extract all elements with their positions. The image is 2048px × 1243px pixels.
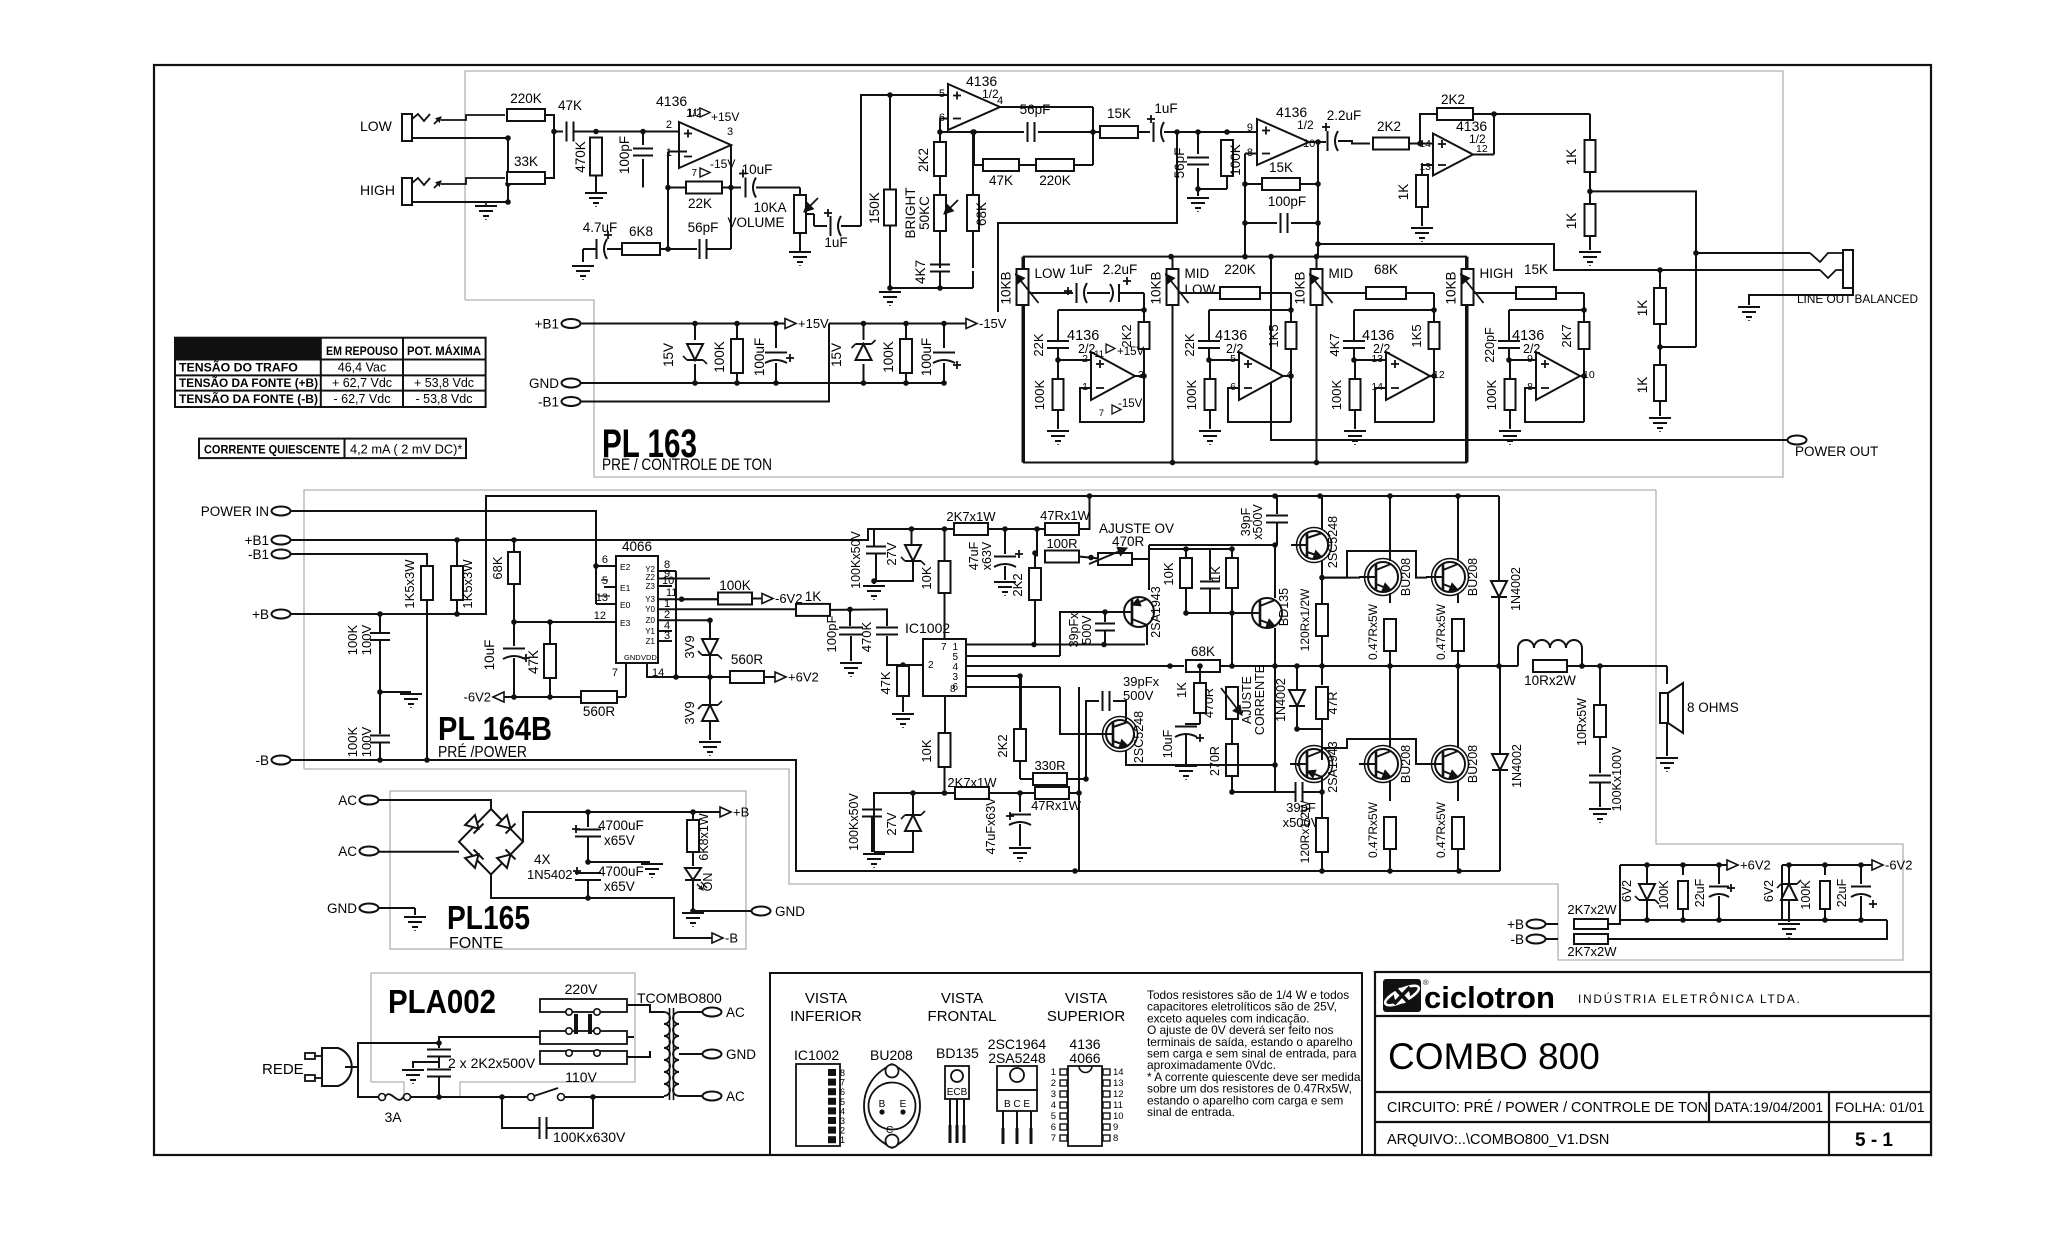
svg-text:6K8x1W: 6K8x1W	[697, 813, 711, 860]
capacitor 22uF pos	[1718, 865, 1720, 884]
op-amp U1B 4136 1/2	[948, 84, 1000, 130]
svg-text:x65V: x65V	[604, 879, 635, 894]
resistor 100R	[1036, 529, 1038, 557]
resistor 68K bright	[972, 132, 974, 178]
svg-text:1K: 1K	[1635, 377, 1650, 394]
svg-text:100K: 100K	[1657, 880, 1671, 910]
pin 8 wire	[944, 696, 946, 733]
resistor 100K to ground	[1221, 140, 1233, 176]
pin 12 E3	[514, 621, 616, 623]
svg-text:FOLHA: 01/01: FOLHA: 01/01	[1835, 1099, 1925, 1115]
wire AC1 to bridge	[378, 800, 491, 809]
wire pot bottom	[1172, 305, 1174, 463]
svg-text:5: 5	[939, 88, 945, 100]
svg-text:47Rx1W: 47Rx1W	[1031, 798, 1082, 813]
speaker 8 OHMS	[1660, 693, 1668, 723]
zener 15V positive rail	[694, 324, 696, 341]
svg-text:VISTA: VISTA	[1065, 990, 1107, 1007]
svg-text:+B1: +B1	[245, 533, 269, 548]
svg-text:100pF: 100pF	[824, 616, 839, 653]
svg-text:2K7x2W: 2K7x2W	[1567, 902, 1617, 917]
ground PL165	[404, 916, 426, 918]
resistor 560R upper	[730, 671, 764, 683]
svg-text:47K: 47K	[878, 671, 893, 694]
net arrow -6V2 mute	[762, 594, 773, 604]
net arrow -6V2 left	[493, 692, 504, 702]
svg-text:CORRENTE QUIESCENTE: CORRENTE QUIESCENTE	[204, 443, 340, 457]
ground midpoint	[380, 691, 411, 693]
capacitor 2.2uF coupling	[1318, 141, 1326, 143]
svg-text:-B1: -B1	[538, 395, 559, 410]
wire 6V2 pos bottom	[1620, 919, 1789, 921]
svg-text:AC: AC	[726, 1089, 745, 1104]
wire -6V2 rail	[1782, 864, 1872, 866]
ground tone cell	[1047, 430, 1069, 432]
svg-text:REDE: REDE	[262, 1061, 304, 1078]
svg-text:5: 5	[1051, 1111, 1056, 1122]
op-amp 4136 2/2 tone	[1091, 352, 1135, 400]
svg-text:6: 6	[840, 1087, 845, 1097]
potentiometer 10KB MID	[1311, 269, 1323, 305]
capacitor 100pF input	[849, 609, 851, 626]
zener 27V upper	[911, 529, 913, 545]
resistor 10Rx2W	[1533, 660, 1567, 672]
wire driver top collector	[1321, 496, 1323, 529]
svg-text:4700uF: 4700uF	[598, 818, 644, 833]
svg-text:100K: 100K	[712, 341, 727, 373]
svg-text:+6V2: +6V2	[788, 670, 819, 685]
connector +B1 power	[272, 536, 291, 545]
wire bridge minus	[491, 874, 712, 938]
svg-text:2K7x1W: 2K7x1W	[946, 509, 996, 524]
svg-text:10: 10	[1113, 1111, 1124, 1122]
resistor 22K feedback	[686, 182, 722, 194]
zener 15V negative rail	[863, 324, 865, 341]
resistor 1K input	[796, 604, 830, 616]
wire bright bottom	[890, 287, 973, 289]
svg-text:10KB: 10KB	[1444, 271, 1459, 304]
svg-text:11: 11	[1094, 349, 1104, 360]
svg-text:-B1: -B1	[248, 547, 269, 562]
wire node to -15V leg	[998, 132, 1177, 312]
wire jack sleeve to ground	[1749, 288, 1853, 305]
svg-text:8: 8	[950, 684, 956, 695]
wire HIGH tip to 33K	[441, 178, 505, 184]
svg-text:-6V2: -6V2	[1885, 858, 1912, 873]
pin 6 E2	[596, 565, 616, 567]
wire driver top emitter	[1321, 561, 1323, 578]
resistor 68K speaker rail	[1186, 660, 1220, 672]
svg-text:4700uF: 4700uF	[598, 864, 644, 879]
svg-text:2K2: 2K2	[916, 148, 931, 172]
resistor 100K tone	[1509, 359, 1536, 361]
svg-text:TENSÃO DO TRAFO: TENSÃO DO TRAFO	[179, 360, 298, 375]
svg-text:10: 10	[1583, 369, 1595, 381]
svg-text:6: 6	[602, 554, 608, 566]
svg-text:10KB: 10KB	[999, 271, 1014, 304]
svg-text:+B1: +B1	[535, 317, 559, 332]
wire POWER IN to 4066 E2	[290, 511, 596, 604]
resistor 68K bias	[513, 540, 515, 552]
wire feedback to divider	[1494, 113, 1590, 115]
svg-text:E: E	[900, 1099, 907, 1110]
ground 47K IC1002	[892, 713, 914, 715]
svg-text:110V: 110V	[565, 1069, 597, 1085]
svg-text:12: 12	[594, 610, 606, 622]
svg-text:13: 13	[1371, 353, 1383, 365]
connector +B power	[272, 610, 291, 619]
svg-text:-B: -B	[1511, 932, 1525, 947]
wire op output	[1283, 375, 1291, 377]
svg-text:10: 10	[1303, 138, 1315, 150]
svg-text:2SA5248: 2SA5248	[988, 1050, 1046, 1066]
connector AC 2	[360, 847, 379, 856]
svg-text:+ 62,7 Vdc: + 62,7 Vdc	[332, 376, 392, 390]
net arrow +15V	[785, 319, 796, 329]
wire GND out	[693, 910, 752, 912]
resistor 2K2 lower bias	[1014, 729, 1026, 761]
svg-text:1N4002: 1N4002	[1509, 567, 1523, 611]
svg-text:39pFx: 39pFx	[1123, 674, 1160, 689]
transistor BU208 top1	[1368, 562, 1398, 592]
wire to jack tip	[1696, 252, 1810, 254]
pin 4 Y1	[658, 630, 672, 632]
wire speaker drop	[1666, 666, 1668, 684]
ground tone cell	[1199, 430, 1221, 432]
svg-text:22K: 22K	[1182, 333, 1197, 356]
resistor 47Rx1W lower	[1035, 787, 1069, 799]
ground volume	[789, 251, 811, 253]
capacitor 10uF 4066	[513, 622, 515, 646]
capacitor 220pF tone	[1508, 310, 1510, 341]
resistor 10K bias	[1180, 558, 1192, 588]
svg-text:15K: 15K	[1269, 160, 1293, 175]
ground 100Kx100V output	[1589, 808, 1611, 810]
wire Y0 line	[847, 607, 853, 613]
svg-text:10KB: 10KB	[1149, 271, 1164, 304]
net arrow -B PL165	[712, 933, 723, 943]
ground 4.7uF	[572, 265, 594, 267]
wire to feedback node	[1583, 293, 1585, 310]
svg-text:560R: 560R	[583, 704, 616, 719]
resistor 1K balanced top	[1659, 270, 1661, 288]
zener 3V9 upper	[702, 639, 718, 655]
capacitor 39pF x500V lower	[1274, 765, 1276, 792]
zener 6V2 neg	[1788, 865, 1790, 884]
svg-text:100Kx100V: 100Kx100V	[1610, 746, 1624, 811]
svg-text:DATA:19/04/2001: DATA:19/04/2001	[1714, 1099, 1823, 1115]
PL163 module outline	[465, 71, 1783, 477]
resistor 0.47Rx5W bottom2	[1452, 817, 1464, 849]
svg-text:1uF: 1uF	[1154, 101, 1177, 116]
svg-text:-15V: -15V	[1118, 398, 1143, 410]
resistor 220K feedback	[1019, 164, 1036, 166]
wire tone bus to power out	[1271, 257, 1787, 440]
tone section box	[1024, 257, 1466, 463]
svg-text:AC: AC	[338, 844, 357, 859]
svg-text:22uF: 22uF	[1835, 878, 1849, 907]
resistor 100K mute out	[682, 598, 719, 600]
wire op output	[1135, 375, 1144, 377]
wire fuse to switch 100K	[410, 1096, 502, 1098]
capacitor 10K 2K2 node	[1148, 548, 1150, 550]
wire driver bottom emitter	[1126, 750, 1275, 765]
svg-text:100K: 100K	[719, 578, 751, 593]
capacitor 100uF negative rail	[943, 324, 945, 349]
svg-text:1: 1	[1051, 1067, 1056, 1078]
svg-text:13: 13	[596, 592, 608, 604]
svg-text:4K7: 4K7	[913, 260, 928, 284]
capacitor 100pF feedback U1C	[1245, 222, 1277, 224]
svg-text:470K: 470K	[859, 621, 874, 652]
svg-text:1K5: 1K5	[1266, 324, 1281, 347]
pin 13 E0	[596, 603, 616, 605]
svg-text:PL165: PL165	[447, 899, 530, 936]
svg-text:x63V: x63V	[980, 541, 994, 570]
svg-text:7: 7	[840, 1078, 845, 1088]
svg-text:470R: 470R	[1112, 534, 1145, 549]
svg-text:22uF: 22uF	[1693, 878, 1707, 907]
capacitor bias	[1209, 549, 1211, 580]
wire negative group top	[829, 323, 966, 325]
svg-text:10uF: 10uF	[482, 640, 497, 671]
ground 10uF lower	[1175, 765, 1197, 767]
svg-text:+15V: +15V	[798, 316, 829, 331]
svg-text:BD135: BD135	[936, 1045, 979, 1061]
switch power	[528, 1094, 535, 1101]
svg-text:47K: 47K	[558, 98, 582, 113]
connector GND right	[703, 1050, 722, 1059]
net arrow +6V2	[1727, 860, 1738, 870]
svg-text:VISTA: VISTA	[941, 990, 983, 1007]
component views panel	[770, 973, 1362, 1155]
svg-text:1K5x3W: 1K5x3W	[460, 559, 475, 609]
svg-text:1K: 1K	[1174, 682, 1189, 698]
wire U1D output	[1473, 154, 1494, 156]
wire U1C output	[1309, 141, 1318, 143]
svg-text:14: 14	[652, 667, 664, 679]
svg-text:AC: AC	[726, 1005, 745, 1020]
wire -6V2 line	[504, 696, 626, 698]
svg-text:+ 53,8 Vdc: + 53,8 Vdc	[414, 376, 474, 390]
svg-text:47Rx1W: 47Rx1W	[1040, 508, 1091, 523]
wire LOW sleeve	[412, 137, 508, 139]
capacitor 56pF feedback U1B	[974, 131, 1024, 133]
connector POWER IN	[272, 507, 291, 516]
svg-text:2K7x1W: 2K7x1W	[947, 775, 997, 790]
wire bias node	[1149, 548, 1232, 550]
svg-text:POWER OUT: POWER OUT	[1795, 444, 1878, 459]
svg-text:4066: 4066	[622, 539, 652, 554]
svg-text:5: 5	[840, 1097, 845, 1107]
resistor 270R	[1226, 744, 1238, 776]
capacitor 1uF series	[1153, 122, 1155, 142]
svg-text:1K: 1K	[1635, 300, 1650, 317]
ground 470K	[585, 192, 607, 194]
svg-text:100V: 100V	[359, 726, 374, 757]
svg-text:100K: 100K	[1032, 379, 1047, 410]
wire cap to op-amp U1A	[574, 131, 687, 133]
wire pot top	[1316, 257, 1318, 269]
svg-text:12: 12	[1476, 143, 1488, 155]
zener 6V2 pos	[1646, 865, 1648, 884]
table transformer voltages	[175, 338, 486, 407]
svg-text:15K: 15K	[1524, 262, 1548, 277]
wire +B1 rail power	[290, 529, 953, 540]
wire -B1 rail	[580, 324, 829, 402]
svg-text:ECB: ECB	[947, 1087, 968, 1098]
svg-text:100Kx50V: 100Kx50V	[849, 530, 863, 588]
svg-text:270R: 270R	[1208, 746, 1222, 776]
svg-text:100K: 100K	[1329, 379, 1344, 410]
svg-text:4136: 4136	[656, 93, 687, 109]
svg-text:10Rx5W: 10Rx5W	[1575, 698, 1589, 746]
svg-text:1/2: 1/2	[1297, 118, 1314, 132]
svg-text:INDÚSTRIA ELETRÔNICA LTDA.: INDÚSTRIA ELETRÔNICA LTDA.	[1578, 992, 1802, 1006]
wire cap midpoint ground	[588, 861, 650, 863]
svg-text:2K7: 2K7	[1559, 324, 1574, 347]
svg-text:GND: GND	[726, 1047, 756, 1062]
wire 39pF lower driver	[1086, 701, 1099, 779]
wire AC2 to bridge	[378, 851, 459, 853]
wire +B rail power	[290, 496, 1499, 614]
svg-text:POWER IN: POWER IN	[201, 504, 269, 519]
transistor 2SA1943 output driver	[1299, 749, 1329, 779]
op-amp 4136 2/2 tone	[1536, 352, 1580, 400]
connector GND right PL165	[752, 907, 771, 916]
title block frame	[1375, 972, 1931, 1155]
svg-text:ARQUIVO:..\COMBO800_V1.DSN: ARQUIVO:..\COMBO800_V1.DSN	[1387, 1132, 1609, 1148]
wire secondary taps	[679, 1011, 703, 1013]
resistor 47R	[1321, 666, 1323, 685]
svg-text:FRONTAL: FRONTAL	[928, 1008, 997, 1025]
svg-text:47K: 47K	[989, 173, 1013, 188]
wire op feedback	[1375, 388, 1434, 422]
capacitor 100Kx50V lower	[873, 793, 875, 807]
svg-text:100K: 100K	[1799, 880, 1813, 910]
wire op output	[1580, 375, 1584, 377]
svg-text:50KC: 50KC	[917, 196, 932, 230]
svg-text:4066: 4066	[1069, 1050, 1100, 1066]
PL164B module outline	[304, 490, 1656, 769]
IC1002 block	[923, 639, 966, 696]
svg-text:1: 1	[840, 1135, 845, 1145]
resistor 2K2 top bias	[1029, 568, 1041, 600]
IC 4066	[616, 556, 658, 663]
transistor BD135	[1252, 598, 1282, 628]
transistor BU208 bottom1	[1368, 749, 1398, 779]
svg-text:100K: 100K	[345, 726, 360, 757]
svg-text:2.2uF: 2.2uF	[1103, 262, 1138, 277]
svg-text:LOW: LOW	[1185, 282, 1216, 297]
net arrow +B PL165	[720, 807, 731, 817]
svg-text:AC: AC	[338, 793, 357, 808]
ground LED	[682, 912, 704, 914]
resistor 47K feedback	[973, 132, 975, 165]
table corrente quiescente	[199, 439, 466, 459]
wire driver node	[1149, 544, 1275, 546]
op-amp U1C 4136 1/2	[1257, 119, 1309, 165]
resistor 120Rx1per2W top	[1316, 604, 1328, 636]
svg-text:120Rx1/2W: 120Rx1/2W	[1298, 800, 1312, 863]
resistor 2K2 feedback U1D	[1437, 108, 1473, 120]
wire jack commons	[507, 138, 509, 202]
resistor 1K bias	[1226, 558, 1238, 588]
svg-text:6K8: 6K8	[629, 224, 653, 239]
ground 1K	[1411, 227, 1433, 229]
pin 5 E1	[604, 586, 616, 588]
svg-text:VDD: VDD	[641, 653, 657, 662]
resistor 1K line out top	[1589, 114, 1591, 140]
svg-text:4: 4	[997, 95, 1003, 107]
resistor 15K series	[1093, 131, 1100, 133]
svg-text:100K: 100K	[1484, 379, 1499, 410]
wire GND left	[378, 907, 415, 909]
svg-text:100pF: 100pF	[617, 136, 632, 174]
ground line out	[1738, 306, 1760, 308]
connector AC top right	[703, 1008, 722, 1017]
zener 27V lower	[905, 815, 921, 831]
svg-text:E0: E0	[620, 600, 631, 610]
pin 8 Y2	[658, 570, 676, 572]
wire U1D feedback	[1420, 114, 1437, 144]
pin 7 wire 10K	[944, 594, 946, 639]
series network	[1179, 292, 1221, 294]
wire lower rail	[874, 793, 955, 852]
svg-text:12: 12	[1113, 1089, 1124, 1100]
svg-text:27V: 27V	[884, 812, 899, 835]
svg-text:PRÉ / CONTROLE DE TON: PRÉ / CONTROLE DE TON	[602, 455, 772, 474]
svg-text:1K: 1K	[1208, 566, 1223, 582]
wire pot bottom	[1022, 305, 1024, 463]
svg-text:11: 11	[1113, 1100, 1123, 1111]
resistor 1K line out bottom	[1585, 204, 1596, 236]
PLA002 module outline	[371, 973, 635, 1097]
resistor 33K input HIGH	[507, 172, 545, 184]
svg-text:1K: 1K	[805, 589, 822, 604]
svg-text:470K: 470K	[573, 141, 588, 173]
ground divider	[1579, 251, 1601, 253]
svg-text:7: 7	[1099, 408, 1104, 419]
svg-text:500V: 500V	[1123, 688, 1154, 703]
resistor 1K5x3W right	[451, 566, 463, 600]
wire BU208 bottom2 leads	[1457, 666, 1459, 748]
svg-text:Z1: Z1	[646, 637, 656, 646]
wire to transformer primary	[593, 1096, 664, 1098]
svg-text:68K: 68K	[974, 202, 989, 226]
wire U1C -input	[1245, 153, 1257, 155]
switch 110V	[540, 1051, 627, 1064]
resistor 120Rx1per2W bottom	[1316, 818, 1328, 852]
svg-text:ON: ON	[701, 873, 715, 892]
svg-text:10KB: 10KB	[1293, 271, 1308, 304]
svg-text:MID: MID	[1329, 266, 1354, 281]
svg-text:3V9: 3V9	[682, 635, 697, 658]
resistor 47K 4066	[549, 622, 551, 644]
connector AC 1	[360, 796, 379, 805]
svg-text:VOLUME: VOLUME	[727, 215, 784, 230]
svg-text:8: 8	[1113, 1133, 1118, 1144]
wire pot top	[1172, 257, 1174, 269]
resistor 220K input LOW	[507, 109, 545, 121]
resistor 2K7 tone feedback	[1583, 310, 1585, 322]
svg-text:500V: 500V	[1080, 615, 1094, 645]
resistor 2K7x1W upper	[954, 523, 988, 535]
ground 2K2 caps	[413, 1062, 439, 1068]
diode 1N4002 bottom	[1499, 666, 1501, 753]
svg-text:sinal de entrada.: sinal de entrada.	[1147, 1105, 1235, 1119]
connector -B power	[272, 756, 291, 765]
